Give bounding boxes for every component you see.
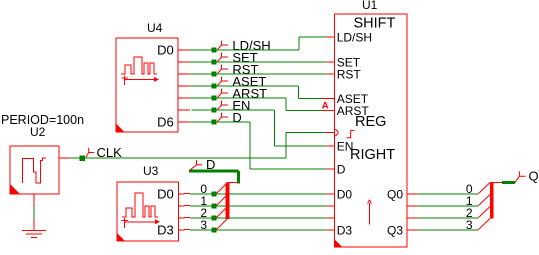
wire row 2 (190, 217, 212, 219)
wire ARST to U1 (286, 110, 322, 112)
U1 pin Q3 (407, 229, 418, 231)
svg-text:RST: RST (337, 67, 362, 81)
junction square 1 (212, 204, 217, 209)
U1 pin EN (327, 145, 335, 147)
wire SET row (190, 61, 212, 63)
svg-text:ARST: ARST (337, 104, 370, 118)
bus entry 3 (217, 219, 228, 230)
wire D vertical jog (249, 122, 251, 169)
junction square CLK (80, 156, 86, 162)
pulse generator U2 (10, 125, 59, 194)
wire D to U1 (250, 168, 327, 170)
wire ARST row (190, 97, 212, 99)
pattern generator U3 (117, 164, 179, 241)
svg-text:D: D (232, 110, 241, 125)
clock edge symbol (347, 131, 355, 138)
bus D vertical bend (237, 171, 240, 184)
U1 pin Q0 (407, 193, 418, 195)
wire row 1 (190, 205, 212, 207)
bus entry 2 (217, 207, 228, 218)
bus Q green segment (502, 181, 515, 184)
wire Q3 (418, 229, 479, 231)
U4 pin D4 (178, 97, 190, 99)
U1 pin SET (327, 61, 335, 63)
wire D row (190, 121, 212, 123)
wire D1 to U1 (217, 205, 327, 207)
junction square RST (212, 72, 217, 77)
label marker ASET (218, 77, 229, 86)
wire EN vertical jog (274, 110, 276, 146)
wire RST row (190, 73, 212, 75)
wire ASET row (190, 85, 212, 87)
svg-text:U3: U3 (143, 164, 159, 178)
wire D to jog (217, 121, 251, 123)
wire CLK to U1 clock pin (286, 132, 327, 134)
svg-text:U1: U1 (362, 0, 378, 12)
bus D horizontal (189, 170, 239, 173)
label marker RST (218, 65, 229, 74)
bus D red connector (228, 182, 239, 184)
wire ASET vertical jog (298, 86, 300, 99)
bus D red bar (226, 183, 230, 220)
wire LD/SH to jog (217, 49, 300, 51)
svg-text:U2: U2 (30, 125, 46, 139)
U2 ground pin wire (33, 194, 35, 207)
bus entry 0 (217, 183, 228, 194)
wire ARST vertical jog (285, 98, 287, 111)
svg-text:3: 3 (200, 218, 207, 232)
svg-text:D: D (337, 162, 346, 176)
junction square 3 (212, 228, 217, 233)
junction square ASET (212, 84, 217, 89)
svg-text:D6: D6 (157, 115, 174, 130)
U1 pin ARST (322, 110, 335, 112)
junction square SET (212, 60, 217, 65)
U1 pin D (327, 168, 335, 170)
U4 pin D0 (178, 49, 190, 51)
U1 pin ASET (322, 98, 335, 100)
wire EN to U1 (275, 145, 327, 147)
U1 pin CLK (327, 132, 335, 134)
junction square 2 (212, 216, 217, 221)
bus entry Q2 (479, 207, 490, 218)
svg-text:D0: D0 (337, 187, 353, 201)
svg-text:EN: EN (337, 139, 354, 153)
svg-text:RIGHT: RIGHT (350, 147, 395, 163)
label marker SET (218, 53, 229, 62)
svg-text:U4: U4 (147, 21, 163, 35)
wire LD/SH vertical jog (298, 37, 300, 50)
wire D3 to U1 (217, 229, 327, 231)
svg-text:Q0: Q0 (387, 187, 403, 201)
bus entry 1 (217, 195, 228, 206)
label marker Q (515, 171, 526, 182)
junction square 0 (212, 192, 217, 197)
wire ARST to jog (217, 97, 287, 99)
bus entry Q0 (479, 183, 490, 194)
junction square LD/SH (212, 48, 217, 53)
U4 pin D5 (178, 109, 190, 111)
shift register U1 (335, 0, 407, 247)
wire SET to U1 (217, 61, 327, 63)
U1 pin D2 (327, 217, 335, 219)
clock pin arc (335, 129, 338, 136)
U2 output pin (59, 157, 70, 159)
U3 pin D1 (179, 205, 191, 208)
U1 pin LD/SH (327, 36, 335, 38)
U1 pin D1 (327, 205, 335, 207)
U3 pin D3 (179, 229, 191, 232)
label marker EN (218, 101, 229, 110)
bus entry Q1 (479, 195, 490, 206)
svg-text:PERIOD=100n: PERIOD=100n (1, 113, 84, 127)
U1 pin D3 (327, 229, 335, 231)
ground (22, 231, 46, 238)
bus entry Q3 (479, 219, 490, 230)
U1 pin Q2 (407, 217, 418, 219)
label marker LD/SH (218, 41, 229, 50)
U1 pin RST (327, 73, 335, 75)
U4 pin D3 (178, 85, 190, 87)
svg-text:LD/SH: LD/SH (337, 30, 372, 44)
wire row 0 (190, 193, 212, 195)
label marker ARST (218, 89, 229, 98)
junction square ARST (212, 96, 217, 101)
shift direction arrow (368, 200, 372, 225)
svg-text:Q3: Q3 (387, 223, 403, 237)
wire Q2 (418, 217, 479, 219)
label marker D bus (190, 160, 203, 171)
wire RST to U1 (217, 73, 327, 75)
wire EN to jog (217, 109, 275, 111)
svg-text:D: D (206, 157, 215, 172)
junction square EN (212, 108, 217, 113)
wire Q1 (418, 205, 479, 207)
wire CLK vertical jog (285, 133, 287, 159)
U4 pin D2 (178, 73, 190, 75)
wire D2 to U1 (217, 217, 327, 219)
wire ASET to jog (217, 85, 299, 87)
wire ASET to U1 (299, 98, 323, 100)
U3 pin D0 (179, 193, 191, 196)
bus Q red connector (492, 182, 502, 184)
label marker CLK (86, 148, 94, 158)
wire EN row (192, 109, 212, 111)
wire CLK horizontal (85, 157, 286, 159)
svg-text:3: 3 (466, 218, 473, 232)
U4 pin D6 (178, 121, 190, 123)
svg-text:D3: D3 (337, 223, 353, 237)
wire Q0 (418, 193, 479, 195)
pattern generator U4 (116, 21, 178, 132)
U4 pin D1 (178, 61, 190, 63)
wire LD/SH to U1 (299, 36, 327, 38)
U3 pin D2 (179, 217, 191, 220)
svg-text:SHIFT: SHIFT (354, 16, 396, 32)
svg-text:A: A (322, 100, 329, 111)
wire LD/SH row (190, 49, 212, 51)
svg-text:D3: D3 (157, 223, 174, 238)
wire row 3 (190, 229, 212, 231)
U1 pin D0 (327, 193, 335, 195)
label marker D (218, 113, 229, 122)
junction square D (212, 120, 217, 125)
svg-text:D0: D0 (157, 187, 174, 202)
svg-text:D0: D0 (157, 43, 174, 58)
U1 pin Q1 (407, 205, 418, 207)
wire D0 to U1 (217, 193, 327, 195)
svg-text:Q: Q (529, 169, 539, 184)
bus Q red bar (490, 182, 494, 219)
